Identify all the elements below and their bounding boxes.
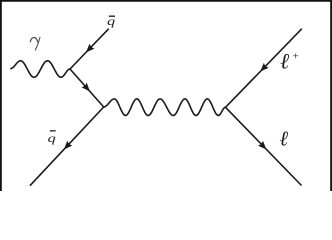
svg-text:q: q <box>48 132 56 145</box>
svg-text:ℓ: ℓ <box>279 127 288 151</box>
svg-text:ℓ: ℓ <box>280 49 290 74</box>
svg-text:+: + <box>293 50 299 62</box>
